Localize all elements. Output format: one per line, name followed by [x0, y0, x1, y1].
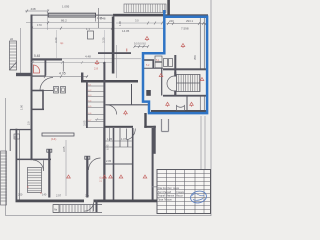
bottom outer wall: [16, 200, 85, 203]
shelf line y=141: [106, 140, 132, 142]
door arc at wall gap: [127, 129, 136, 140]
right section wall y=95.5: [163, 95, 207, 97]
dimension line y=76.5 with ticks: [31, 76, 88, 78]
dim tick y=22.7: [47, 21, 49, 24]
right section wall y=69: [163, 68, 207, 70]
svg-text:293.1: 293.1: [186, 19, 193, 23]
svg-text:9.0 9.0 9.0: 9.0 9.0 9.0: [134, 43, 146, 46]
bottom stair left box: [53, 205, 59, 213]
svg-text:2.15: 2.15: [99, 176, 103, 182]
small fixture square in big room: [88, 31, 94, 39]
svg-text:2.0: 2.0: [27, 121, 31, 125]
cap on partition x=49.5: [47, 149, 52, 152]
svg-text:1.1: 1.1: [86, 27, 90, 31]
dim ticks mid top: [147, 22, 163, 25]
door arc wc: [40, 78, 53, 91]
top wall thin left section: [31, 15, 114, 16]
svg-text:2.8: 2.8: [94, 67, 98, 71]
wall y=186.8 stub to table: [152, 186, 158, 188]
partition x=120 short: [119, 128, 121, 147]
vertical stub below wall end x=63.3: [62, 61, 64, 72]
red triangle marker room A2: [145, 37, 149, 42]
svg-text:5.48: 5.48: [34, 54, 40, 58]
svg-text:2.05: 2.05: [106, 159, 112, 163]
door arc lower-left: [33, 160, 44, 171]
room divider wall x=161.7: [161, 69, 163, 96]
door bump right section: [177, 106, 185, 111]
dim line y=28.2: [31, 27, 163, 29]
wall stub y=68 x 144-163: [144, 67, 163, 69]
partition x=49.5 with cap: [48, 150, 50, 198]
svg-text:2d: 2d: [10, 37, 14, 41]
sheet border left: [5, 98, 7, 216]
sheet border right: [210, 0, 212, 216]
right inner wall line x=204.5 upper: [203, 16, 205, 69]
right inner wall line x=200.5 lower: [199, 95, 201, 111]
right dim ticks: [167, 22, 207, 25]
partition x=152.5 right edge of section: [152, 128, 154, 201]
red triangle marker stair landing: [200, 78, 204, 81]
partition x=87.5 with cap: [86, 157, 88, 198]
dark pier right of stair: [167, 0, 170, 15]
title block verticals: [167, 170, 205, 214]
stamp blue ellipse: [189, 190, 207, 205]
dim ticks y=62.5: [32, 61, 105, 64]
extension line right x=201 below: [200, 116, 202, 170]
wall y=126.8 right part: [144, 126, 156, 128]
title block horizontals: [157, 174, 211, 210]
svg-text:25x: 25x: [85, 194, 90, 198]
svg-text:1.07: 1.07: [121, 137, 127, 141]
toilet fixture 2 inner: [62, 88, 65, 92]
sheet border bottom: [6, 215, 212, 217]
door jamb upper: [174, 72, 176, 77]
interior stair rungs: [28, 170, 42, 191]
red fixture arc (sink): [34, 65, 40, 73]
svg-text:240: 240: [169, 19, 174, 23]
right stair outline: [177, 75, 201, 92]
thin dim vertical x=66: [65, 140, 67, 196]
left ladder rungs: [10, 43, 17, 67]
left exterior ladder rails: [10, 41, 17, 70]
interior stair bottom-left outline: [28, 168, 42, 193]
sub divider x=109.6: [109, 128, 111, 141]
canopy bar (balcony outline): [48, 13, 95, 17]
bottom right wall of stair bay: [96, 200, 98, 213]
dim ticks above wall y52: [134, 46, 148, 48]
red triangle marker mid room: [124, 111, 128, 116]
wall y=104.5 with door gap: [106, 104, 151, 106]
red triangle marker room A1: [95, 61, 99, 66]
svg-text:1.80: 1.80: [118, 20, 122, 26]
dim ticks y=28.2: [31, 27, 113, 30]
shaft column right wall: [103, 62, 105, 200]
svg-text:1.095: 1.095: [62, 5, 70, 9]
right inner wall line x=204.5 lower: [203, 95, 205, 111]
svg-text:Стадия: Стадия: [176, 192, 185, 194]
right section: top-right interior dim line: [167, 23, 208, 25]
left outer wall upper: [31, 15, 33, 161]
entry landing stub: [16, 73, 31, 76]
svg-text:140: 140: [42, 193, 47, 197]
left ladder diagonal: [10, 62, 17, 70]
red dash mark room A2: [126, 49, 128, 52]
svg-text:Масшт: Масшт: [176, 196, 184, 198]
extension line right x=205 below: [204, 116, 206, 170]
shaft cell divider 8: [87, 127, 104, 129]
right door semicircle swing: [167, 76, 174, 91]
shaft cell divider 5: [87, 107, 104, 109]
small niche box left wall: [14, 134, 20, 139]
terrace edge line x=20.5: [20, 28, 22, 73]
top staircase outline: [124, 4, 166, 13]
cells cluster wall horizontal y=60: [144, 59, 154, 61]
svg-text:пр: пр: [60, 41, 64, 45]
shaft cell divider 6: [87, 114, 104, 116]
cell box 1: [155, 56, 162, 62]
left wall inner line x=19.5: [19, 130, 21, 201]
red triangle marker top right room: [181, 44, 185, 49]
svg-text:6.05: 6.05: [106, 144, 110, 150]
bottom middle rooms: wall x=104.5 lower: [103, 128, 105, 201]
svg-text:1.00: 1.00: [20, 104, 24, 110]
top dimension ticks: [26, 10, 49, 13]
svg-text:14.05: 14.05: [122, 29, 130, 33]
door leaf wc: [40, 90, 53, 92]
svg-text:7.598: 7.598: [181, 27, 189, 31]
svg-text:448: 448: [31, 7, 36, 11]
svg-text:(14): (14): [51, 137, 56, 141]
left wall step at y=129.5: [10, 129, 32, 130]
door jamb lower: [174, 91, 176, 96]
partition x=133: [132, 128, 134, 201]
shaft cell divider 4: [87, 101, 104, 103]
faint dim line y=119.5: [95, 118, 104, 121]
wall y=126.8 left part: [104, 126, 133, 128]
red triangle marker right room 2: [190, 102, 194, 107]
svg-text:3.0: 3.0: [135, 19, 139, 23]
shaft column left wall: [86, 81, 88, 129]
wall y=109 stub: [31, 109, 45, 111]
left hatched strip (adjacent structure): [1, 151, 7, 205]
grey utility box outside (157-169,118-133): [162, 119, 169, 132]
cell box 2: [155, 62, 162, 68]
stamp blue scribble: [192, 194, 204, 201]
svg-text:1.05: 1.05: [107, 137, 113, 141]
wall x=154.5 step down: [154, 126, 156, 154]
svg-text:86.2: 86.2: [61, 19, 67, 23]
blue highlight boundary: [143, 10, 207, 113]
counter bar (42-74, 133-136): [42, 133, 74, 136]
svg-text:Лист Разраб: Лист Разраб: [158, 192, 172, 194]
thin parallel line x=116.5: [115, 45, 117, 78]
faint extension x=56.5: [56, 30, 58, 58]
left outer wall lower: [16, 129, 18, 202]
pier at room corner (146.5,90): [146, 90, 151, 96]
pilaster x=82: [81, 73, 83, 82]
partition x=113.5: [113, 128, 115, 201]
wall x=175.5 y 55-72: [174, 55, 176, 72]
wall x=131.5 y 84-105: [131, 84, 133, 105]
svg-text:3.20: 3.20: [54, 37, 58, 43]
wall band y=81.5-84: [81, 80, 138, 83]
wall x=43 y 90-110: [42, 90, 44, 110]
cells cluster wall vertical x=153: [152, 60, 154, 68]
top wall thick (under stair): [113, 14, 164, 17]
dim line mid top y=23: [116, 22, 163, 24]
svg-text:Пров Петров: Пров Петров: [158, 199, 173, 201]
svg-text:359: 359: [193, 55, 197, 60]
thin dim line y=62.5: [31, 62, 113, 64]
svg-text:4.05: 4.05: [59, 72, 66, 76]
door arc room mid: [107, 105, 117, 115]
shaft cell divider 2: [87, 91, 104, 93]
right section bottom wall y=111: [151, 110, 208, 112]
shaft cell divider 7: [87, 121, 104, 123]
right section partition x=187: [186, 97, 188, 112]
wc partition vertical x=45.5: [45, 59, 47, 76]
svg-text:Разраб Иванов: Разраб Иванов: [158, 196, 175, 198]
right inner wall line x=200.5 upper: [199, 16, 201, 69]
wall y=164 cluster bottom: [106, 163, 134, 165]
bottom entrance stair rails: [53, 205, 102, 213]
interior wall y=58.5 left: [31, 58, 62, 60]
red triangle marker right room 1: [166, 102, 170, 107]
wc fixtures right section top: [164, 59, 168, 67]
interior wall x=113 (double dark): [112, 17, 115, 74]
faint extension x=104.3: [103, 30, 105, 62]
outer step edge x=10.2: [9, 130, 11, 152]
dim extension vertical x=47.5: [47, 9, 49, 30]
red triangle marker bottom rooms: [67, 175, 147, 178]
shelf line y=147: [106, 146, 132, 148]
svg-text:3.20: 3.20: [102, 37, 106, 43]
svg-text:2.97: 2.97: [56, 194, 62, 198]
top staircase treads hatch: [126, 4, 164, 13]
door arc right of partition: [89, 158, 101, 170]
cap on partition x=87.5: [85, 156, 90, 159]
wall x=145.5 below blue: [144, 113, 146, 128]
bottom door arc: [85, 202, 94, 211]
svg-text:170: 170: [37, 23, 42, 27]
right top wall under blue: [164, 14, 208, 16]
toilet fixture 2: [61, 87, 66, 94]
svg-text:5.48: 5.48: [100, 17, 106, 21]
canopy right drop line: [96, 8, 99, 28]
bottom entrance stair rungs: [60, 205, 93, 213]
bottom outer wall right part: [94, 200, 158, 203]
svg-text:4.48: 4.48: [85, 55, 91, 59]
svg-text:200: 200: [18, 193, 23, 197]
wall y=52.5 middle (left of blue): [98, 52, 131, 54]
thin dim line y=58.5 continuing right: [62, 58, 141, 60]
shaft cell divider 1: [87, 85, 104, 87]
toilet fixture 1 inner: [55, 88, 58, 92]
svg-text:Изм Кол Лист №док: Изм Кол Лист №док: [158, 187, 180, 190]
shaft cell divider 3: [87, 96, 104, 98]
wall y=90.5 left room: [31, 90, 44, 92]
top dimension line: [25, 10, 48, 12]
svg-text:3.05: 3.05: [83, 120, 87, 126]
right stair center rail: [177, 82, 201, 84]
svg-text:3.05: 3.05: [62, 146, 66, 152]
toilet fixture 1: [54, 87, 59, 94]
red triangle marker left of stair: [159, 74, 163, 77]
wall y=159.3 lower-left room: [16, 159, 51, 161]
wall y=76 wc: [31, 75, 46, 77]
dim line y=22.7: [26, 22, 112, 24]
paper background: [0, 0, 214, 218]
dim ticks on y=76.5: [44, 75, 88, 78]
title block outer: [157, 170, 211, 214]
partition x=127.5: [127, 140, 129, 148]
left strip hatch: [1, 153, 7, 201]
right stair risers: [179, 75, 200, 92]
